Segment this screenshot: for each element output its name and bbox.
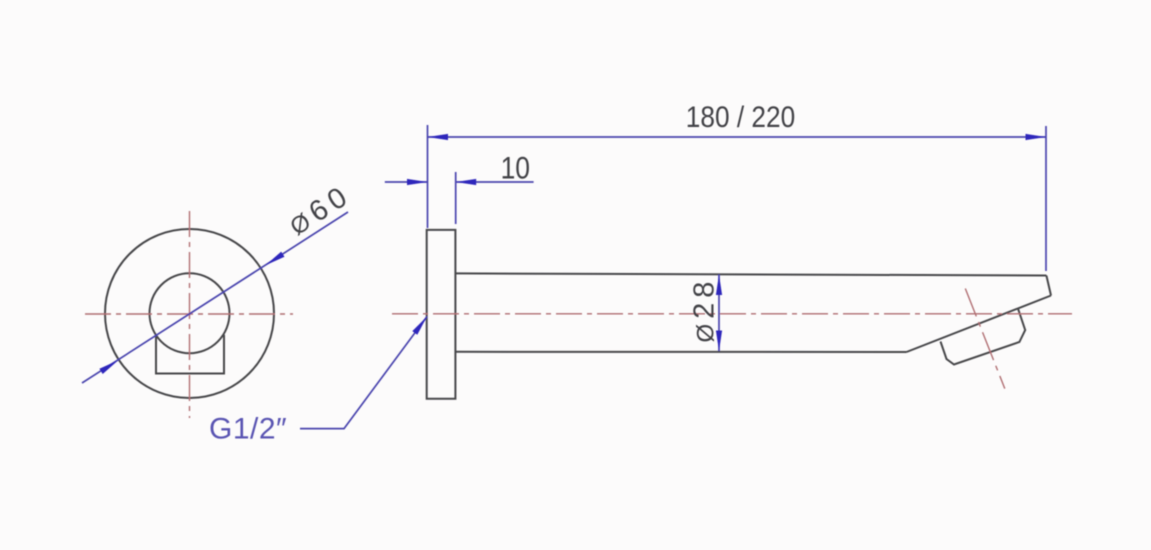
dimension 10: right extension line — [455, 172, 457, 224]
side view: spout cut face diagonal — [907, 296, 1052, 353]
dimension Ø60: diagonal dimension line — [82, 212, 348, 383]
side view: wall flange plate — [427, 230, 456, 399]
dimension Ø28: top arrowhead — [716, 275, 722, 296]
front view: bracket rectangle below tube — [156, 335, 224, 374]
side view: horizontal center line (red dash-dot) — [392, 313, 1072, 315]
dimension Ø60: lower-left arrowhead — [99, 360, 118, 374]
dimension 180/220: left extension line — [427, 125, 429, 228]
svg-text:10: 10 — [501, 151, 530, 186]
dimension 180/220: right extension line — [1045, 126, 1047, 271]
front view: horizontal center line (red dash-dot) — [85, 313, 293, 315]
dimension Ø28: vertical dimension line — [718, 275, 720, 352]
svg-text:Ø60: Ø60 — [283, 179, 357, 242]
dimension 180/220: left arrowhead — [428, 134, 449, 140]
svg-text:Ø28: Ø28 — [689, 277, 721, 343]
side view: spout tube top edge — [455, 273, 1046, 275]
svg-text:180 / 220: 180 / 220 — [686, 99, 795, 133]
dimension Ø28: bottom arrowhead — [716, 331, 722, 352]
svg-text:G1/2″: G1/2″ — [209, 413, 287, 446]
thread callout G1/2": leader arrowhead — [412, 317, 427, 335]
dimension 10: right dimension line with arrow — [456, 181, 534, 183]
dimension 180/220: dimension line — [428, 136, 1047, 138]
thread callout G1/2": leader line — [300, 317, 427, 429]
front view: spout tube inner circle — [150, 273, 230, 353]
dimension 180/220: right arrowhead — [1026, 134, 1047, 140]
side view: spout tip right edge — [1046, 276, 1051, 296]
front view: wall flange outer circle Ø60 — [105, 229, 274, 398]
dimension 10: left dimension line with arrow — [385, 181, 428, 183]
side view: aerator axis center line (red dash-dot) — [965, 289, 1005, 389]
dimension Ø60: upper-right arrowhead — [266, 252, 285, 266]
front view: vertical center line (red dash-dot) — [189, 211, 191, 418]
side view: aerator cup outline — [941, 309, 1026, 364]
side view: spout tube bottom edge — [455, 351, 906, 353]
